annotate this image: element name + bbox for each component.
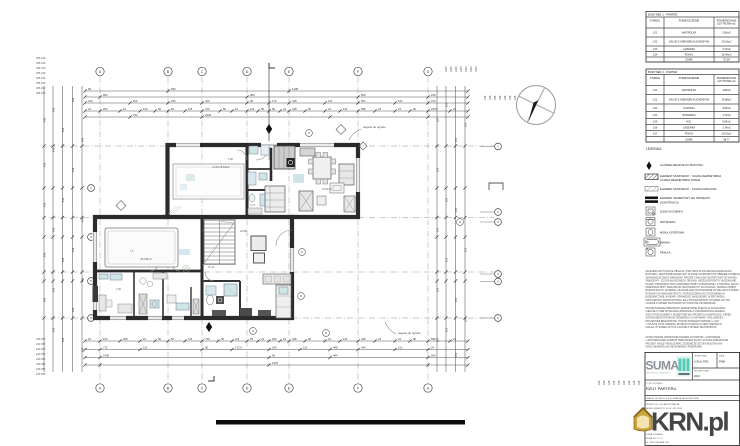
svg-text:POKOJ: POKOJ <box>685 133 694 136</box>
svg-text:5,80m2: 5,80m2 <box>722 107 731 110</box>
svg-text:PROJEKT NALEZY REALIZOWAC ZGOD: PROJEKT NALEZY REALIZOWAC ZGODNIE ZE SZT… <box>646 342 723 345</box>
svg-text:154: 154 <box>103 337 108 341</box>
svg-text:I UDOSTEPNIANIE OSOBOM TRZECIM: I UDOSTEPNIANIE OSOBOM TRZECIM BEZ ZGODY… <box>646 339 730 342</box>
svg-text:24: 24 <box>328 337 331 341</box>
svg-text:448: 448 <box>43 117 47 122</box>
svg-text:24: 24 <box>261 337 264 341</box>
svg-text:= 215,50 M N.P.M. RZEDNE I WYM: = 215,50 M N.P.M. RZEDNE I WYMIARY PODAN… <box>646 323 723 326</box>
svg-text:208: 208 <box>123 337 128 341</box>
svg-text:3,80m2: 3,80m2 <box>722 89 731 92</box>
svg-text:ELEMENT MUROWANY - SCIANA DZ: ELEMENT MUROWANY - SCIANA DZIALOWA <box>660 187 717 191</box>
svg-text:1438: 1438 <box>292 87 298 91</box>
svg-text:240: 240 <box>88 99 93 103</box>
svg-text:25,63m2: 25,63m2 <box>722 41 732 44</box>
svg-text:455 240: 455 240 <box>36 91 46 95</box>
svg-text:OPRACOWANIE CHRONIONE PRAWEM A: OPRACOWANIE CHRONIONE PRAWEM AUTORSKIM -… <box>646 336 721 339</box>
svg-text:C: C <box>201 387 204 391</box>
svg-text:112: 112 <box>250 107 255 111</box>
svg-text:1.02: 1.02 <box>653 41 658 44</box>
svg-text:25,63m2: 25,63m2 <box>322 188 332 191</box>
svg-text:455 240: 455 240 <box>36 61 46 65</box>
svg-text:730: 730 <box>205 337 210 341</box>
svg-text:BUDYNEK I JEGO ROZBUDOWA LEZY: BUDYNEK I JEGO ROZBUDOWA LEZY W PASIE OC… <box>646 273 740 276</box>
svg-text:115: 115 <box>343 107 348 111</box>
svg-text:24: 24 <box>88 337 91 341</box>
svg-text:OBOWIAZUJE ZAKAZ ZABUDOWY. PRO: OBOWIAZUJE ZAKAZ ZABUDOWY. PROJEKT ZAKLA… <box>646 276 738 279</box>
svg-text:WYKONANIEM OTWOROW SPRAWDZIC I: WYKONANIEM OTWOROW SPRAWDZIC ICH WYMIARY… <box>646 317 725 320</box>
svg-text:24,68m2: 24,68m2 <box>722 98 732 101</box>
svg-text:24: 24 <box>143 337 146 341</box>
svg-text:980: 980 <box>250 93 255 97</box>
svg-text:254: 254 <box>454 297 458 302</box>
svg-text:90: 90 <box>308 337 311 341</box>
svg-text:240 455: 240 455 <box>36 347 46 351</box>
svg-text:PRALKA: PRALKA <box>660 251 671 255</box>
svg-text:240 455: 240 455 <box>36 357 46 361</box>
svg-text:455 240: 455 240 <box>36 71 46 75</box>
svg-text:2440: 2440 <box>205 113 211 117</box>
svg-text:110: 110 <box>398 99 403 103</box>
svg-text:10,46: 10,46 <box>208 266 215 269</box>
svg-text:240 455: 240 455 <box>36 362 46 366</box>
svg-text:24: 24 <box>378 107 381 111</box>
svg-text:240: 240 <box>272 345 277 349</box>
svg-text:SYMBOL: SYMBOL <box>650 20 661 23</box>
svg-text:24: 24 <box>398 337 401 341</box>
svg-text:50: 50 <box>158 107 161 111</box>
svg-text:448: 448 <box>627 380 631 385</box>
svg-text:1.07: 1.07 <box>653 133 658 136</box>
svg-text:BUDOWLANYCH. MATERIALY BUDOWLA: BUDOWLANYCH. MATERIALY BUDOWLANE ZASTOSO… <box>646 289 740 292</box>
svg-text:448: 448 <box>612 380 616 385</box>
svg-text:1.01: 1.01 <box>653 32 658 35</box>
svg-text:25,46m2: 25,46m2 <box>722 53 732 56</box>
svg-text:ZLEW KUCHENNY: ZLEW KUCHENNY <box>660 210 684 214</box>
svg-text:1438: 1438 <box>103 353 109 357</box>
svg-text:LAZIENKA: LAZIENKA <box>683 127 695 130</box>
svg-text:ARCHITEKCI I PARTNERZY: ARCHITEKCI I PARTNERZY <box>647 372 672 375</box>
svg-text:50: 50 <box>221 337 224 341</box>
svg-text:110: 110 <box>133 99 138 103</box>
svg-text:110: 110 <box>143 345 148 349</box>
svg-text:wejscie do ogrodu: wejscie do ogrodu <box>363 125 386 129</box>
svg-text:448: 448 <box>71 247 75 252</box>
svg-text:WANNA: WANNA <box>660 241 670 245</box>
svg-text:KRN.pl: KRN.pl <box>651 407 728 437</box>
svg-text:448: 448 <box>483 95 487 100</box>
svg-text:50: 50 <box>171 337 174 341</box>
svg-text:SUMA: SUMA <box>646 359 680 373</box>
svg-text:455 240: 455 240 <box>36 76 46 80</box>
svg-text:BUDYNEK 1 - PARTER: BUDYNEK 1 - PARTER <box>648 13 677 17</box>
svg-text:3,78m2: 3,78m2 <box>722 127 731 130</box>
svg-text:3,73m2: 3,73m2 <box>722 48 731 51</box>
svg-text:CIEPLNEJ I INNE WYMAGANIA ZWIA: CIEPLNEJ I INNE WYMAGANIA ZWIAZANE Z OSZ… <box>646 310 726 313</box>
svg-text:112: 112 <box>235 337 240 341</box>
svg-text:WSZYSTKIE ELEMENTY ZELBETOWE W: WSZYSTKIE ELEMENTY ZELBETOWE WG PROJEKTU… <box>646 314 732 316</box>
svg-text:43,08m2: 43,08m2 <box>140 257 152 261</box>
svg-text:448: 448 <box>622 380 626 385</box>
svg-text:G: G <box>427 387 430 391</box>
svg-text:wejscie do ogrodu: wejscie do ogrodu <box>398 331 421 335</box>
svg-text:LEGENDA: LEGENDA <box>646 147 662 151</box>
svg-text:ZALECENIA DOTYCZACE OBSLUGI I: ZALECENIA DOTYCZACE OBSLUGI I PRZYJETE W… <box>646 270 733 273</box>
svg-text:D: D <box>246 70 249 74</box>
svg-text:772: 772 <box>103 345 108 349</box>
svg-text:172.5: 172.5 <box>235 345 242 349</box>
svg-text:254: 254 <box>454 352 458 357</box>
svg-text:448: 448 <box>361 337 366 341</box>
svg-text:POSIADAC WYMAGANE ATESTY I DOP: POSIADAC WYMAGANE ATESTY I DOPUSZCZENIA … <box>646 292 726 295</box>
svg-text:2440: 2440 <box>449 66 453 72</box>
svg-text:448: 448 <box>81 217 85 222</box>
svg-text:120: 120 <box>143 107 148 111</box>
svg-text:BUDOWNICTWIE. WYMIARY SPRAWDZI: BUDOWNICTWIE. WYMIARY SPRAWDZIC NA BUDOW… <box>646 296 726 299</box>
svg-text:254: 254 <box>445 197 449 202</box>
svg-text:MISKA USTEPOWA: MISKA USTEPOWA <box>660 231 684 235</box>
svg-text:8,09m2: 8,09m2 <box>722 121 731 124</box>
svg-text:254: 254 <box>436 227 440 232</box>
svg-text:448: 448 <box>43 252 47 257</box>
svg-text:50: 50 <box>158 337 161 341</box>
svg-text:D: D <box>246 387 249 391</box>
svg-text:RZUT PARTERU: RZUT PARTERU <box>646 386 677 391</box>
svg-text:115: 115 <box>188 107 193 111</box>
svg-text:730: 730 <box>205 107 210 111</box>
svg-text:SUMA: SUMA <box>685 138 693 141</box>
svg-text:240 455: 240 455 <box>36 372 46 376</box>
svg-text:448: 448 <box>637 380 641 385</box>
svg-text:50: 50 <box>171 107 174 111</box>
svg-text:254: 254 <box>436 337 440 342</box>
svg-text:LOKAL PRO: LOKAL PRO <box>694 360 709 364</box>
svg-text:UZYTKOWA m2: UZYTKOWA m2 <box>717 80 736 83</box>
svg-text:254: 254 <box>445 102 449 107</box>
svg-text:ELEMENT ZELBETOWY WG PROJEKTU: ELEMENT ZELBETOWY WG PROJEKTU <box>660 196 710 200</box>
svg-text:455 240: 455 240 <box>36 81 46 85</box>
svg-text:930: 930 <box>171 87 176 91</box>
svg-text:+0,00 19,69m2: +0,00 19,69m2 <box>212 165 230 169</box>
svg-text:WIATROLAP: WIATROLAP <box>682 32 697 35</box>
svg-text:24: 24 <box>123 107 126 111</box>
svg-text:448: 448 <box>493 95 497 100</box>
svg-text:WATPLIWOSCI SKONTAKTOWAC SIE Z: WATPLIWOSCI SKONTAKTOWAC SIE Z PROJEKTAN… <box>646 299 731 302</box>
svg-text:448: 448 <box>488 95 492 100</box>
svg-text:ORAZ OBOWIAZUJACYMI NORMAMI I: ORAZ OBOWIAZUJACYMI NORMAMI I PRZEPISAMI… <box>646 346 703 349</box>
svg-text:115: 115 <box>188 337 193 341</box>
svg-text:2440: 2440 <box>469 66 473 72</box>
svg-text:UWAGA: RYSUNEK CZYTAC LACZNIE: UWAGA: RYSUNEK CZYTAC LACZNIE Z OPISEM T… <box>646 326 718 329</box>
svg-text:SALON Z ANEKSEM KUCHENNYM: SALON Z ANEKSEM KUCHENNYM <box>669 98 709 101</box>
svg-text:448: 448 <box>607 380 611 385</box>
svg-text:GLOWNE WEJSCIE DO BUDYNKU: GLOWNE WEJSCIE DO BUDYNKU <box>660 163 703 167</box>
svg-text:110: 110 <box>303 345 308 349</box>
svg-text:SUMA: SUMA <box>685 59 693 62</box>
svg-text:POMIESZCZENIE: POMIESZCZENIE <box>679 77 700 80</box>
svg-text:POMIESZCZENIE: POMIESZCZENIE <box>679 20 700 23</box>
svg-text:448: 448 <box>61 337 65 342</box>
svg-text:DATA: DATA <box>719 355 725 358</box>
svg-text:252: 252 <box>272 337 277 341</box>
svg-text:C: C <box>201 70 204 74</box>
svg-text:1.03: 1.03 <box>653 48 658 51</box>
svg-text:1.04: 1.04 <box>653 53 658 56</box>
svg-text:SYMBOL: SYMBOL <box>650 77 661 80</box>
svg-text:SKALA 1:100 NR RYS. A-01 BRA: SKALA 1:100 NR RYS. A-01 BRANZA: ARCHITE… <box>646 397 699 400</box>
svg-text:98,77: 98,77 <box>723 138 730 141</box>
svg-text:348: 348 <box>292 337 297 341</box>
svg-text:1.02: 1.02 <box>653 98 658 101</box>
svg-text:448: 448 <box>52 287 56 292</box>
svg-text:PWB: PWB <box>719 360 725 364</box>
svg-text:448: 448 <box>43 162 47 167</box>
svg-text:448: 448 <box>498 95 502 100</box>
svg-text:455 240: 455 240 <box>36 86 46 90</box>
svg-text:900: 900 <box>103 93 108 97</box>
svg-text:444: 444 <box>333 353 338 357</box>
svg-text:448: 448 <box>61 257 65 262</box>
svg-text:1.06: 1.06 <box>653 127 658 130</box>
svg-text:448: 448 <box>292 99 297 103</box>
svg-text:UZYTKOWA m2: UZYTKOWA m2 <box>717 23 736 26</box>
svg-text:440: 440 <box>205 99 210 103</box>
svg-text:TYTUL RYSUNKU: TYTUL RYSUNKU <box>646 383 663 385</box>
svg-text:448: 448 <box>602 380 606 385</box>
svg-text:ZMYWARKA: ZMYWARKA <box>660 220 676 224</box>
svg-text:PROJEKTOWANE PRZEGRODY ZEWNETR: PROJEKTOWANE PRZEGRODY ZEWNETRZNE SPELNI… <box>646 307 726 310</box>
svg-text:SCIANA WEWNETRZNA NOSNA: SCIANA WEWNETRZNA NOSNA <box>660 178 701 182</box>
svg-text:448: 448 <box>43 297 47 302</box>
svg-text:110: 110 <box>328 99 333 103</box>
svg-text:254: 254 <box>436 287 440 292</box>
svg-text:SUMA SP. Z O.O.: SUMA SP. Z O.O. <box>646 437 664 440</box>
svg-text:1.03: 1.03 <box>653 107 658 110</box>
svg-text:254: 254 <box>454 137 458 142</box>
svg-text:90: 90 <box>413 337 416 341</box>
svg-text:24: 24 <box>283 107 286 111</box>
svg-text:POKOJ: POKOJ <box>685 53 694 56</box>
svg-text:2378: 2378 <box>272 361 278 365</box>
svg-text:OPRACOWAL: OPRACOWAL <box>694 355 708 358</box>
svg-text:90: 90 <box>250 99 253 103</box>
svg-text:444: 444 <box>361 345 366 349</box>
svg-text:55: 55 <box>250 337 253 341</box>
svg-text:240 455: 240 455 <box>36 367 46 371</box>
svg-text:254: 254 <box>464 317 468 322</box>
svg-text:448: 448 <box>632 380 636 385</box>
svg-text:24: 24 <box>398 107 401 111</box>
svg-text:448: 448 <box>43 202 47 207</box>
svg-text:598: 598 <box>431 337 436 341</box>
svg-text:1.04: 1.04 <box>653 114 658 117</box>
svg-text:2440: 2440 <box>454 66 458 72</box>
svg-text:230: 230 <box>431 93 436 97</box>
svg-text:154: 154 <box>133 113 138 117</box>
svg-text:LAZIENKA: LAZIENKA <box>683 48 695 51</box>
svg-text:24: 24 <box>88 107 91 111</box>
svg-text:KUCHNIA: KUCHNIA <box>683 107 695 110</box>
svg-text:3,73: 3,73 <box>250 204 255 207</box>
svg-text:455 240: 455 240 <box>36 56 46 60</box>
svg-text:24: 24 <box>431 345 434 349</box>
svg-text:UL. BUDOWLANA 10/2: UL. BUDOWLANA 10/2 <box>646 441 670 444</box>
svg-text:KONSTRUKCJI: KONSTRUKCJI <box>660 201 679 205</box>
svg-text:PRZEPISOW BHP I WARUNKOW TECHN: PRZEPISOW BHP I WARUNKOW TECHNICZNYCH WY… <box>646 286 738 289</box>
svg-text:24: 24 <box>235 107 238 111</box>
svg-text:ZABUDOWY - ZGODA WLASCIWEGO OR: ZABUDOWY - ZGODA WLASCIWEGO ORGANU. WSZE… <box>646 280 737 283</box>
svg-text:2021: 2021 <box>694 374 700 378</box>
svg-text:2440: 2440 <box>464 66 468 72</box>
svg-text:BUDYNEK 2 - PARTER: BUDYNEK 2 - PARTER <box>648 70 677 74</box>
svg-text:254: 254 <box>464 122 468 127</box>
svg-text:SALON Z ANEKSEM KUCHENNYM: SALON Z ANEKSEM KUCHENNYM <box>669 41 709 44</box>
svg-text:172: 172 <box>272 99 277 103</box>
svg-text:24,68: 24,68 <box>240 229 247 233</box>
svg-text:254: 254 <box>445 257 449 262</box>
svg-text:24: 24 <box>328 107 331 111</box>
svg-text:G: G <box>427 70 430 74</box>
svg-text:1.01: 1.01 <box>653 89 658 92</box>
svg-text:1.05: 1.05 <box>653 121 658 124</box>
svg-text:HOL: HOL <box>686 121 692 124</box>
svg-text:2440: 2440 <box>474 66 478 72</box>
svg-text:24: 24 <box>453 107 456 111</box>
svg-text:254: 254 <box>445 327 449 332</box>
svg-text:2440: 2440 <box>444 66 448 72</box>
svg-text:254: 254 <box>454 207 458 212</box>
svg-text:5,80: 5,80 <box>228 158 233 161</box>
svg-text:90: 90 <box>272 353 275 357</box>
svg-text:448: 448 <box>513 95 517 100</box>
svg-text:448: 448 <box>71 167 75 172</box>
svg-text:254: 254 <box>103 107 108 111</box>
svg-text:PROJEKTAMI BRANZOWYMI. POZIOM: PROJEKTAMI BRANZOWYMI. POZIOM POSADZKI P… <box>646 320 720 323</box>
svg-text:240 455: 240 455 <box>36 337 46 341</box>
svg-text:448: 448 <box>71 307 75 312</box>
svg-text:50: 50 <box>223 107 226 111</box>
svg-text:554: 554 <box>431 353 436 357</box>
svg-text:240 455: 240 455 <box>36 342 46 346</box>
svg-text:24: 24 <box>378 337 381 341</box>
svg-text:NALEZY PROWADZIC POD NADZOREM: NALEZY PROWADZIC POD NADZOREM OSOBY UPRA… <box>646 283 740 286</box>
svg-text:448: 448 <box>503 95 507 100</box>
svg-text:448: 448 <box>292 107 297 111</box>
svg-text:90: 90 <box>413 107 416 111</box>
svg-text:2378: 2378 <box>431 107 437 111</box>
svg-text:214: 214 <box>431 99 436 103</box>
svg-text:448: 448 <box>597 380 601 385</box>
svg-text:448: 448 <box>81 277 85 282</box>
svg-text:20,53m2: 20,53m2 <box>722 133 732 136</box>
svg-text:448: 448 <box>508 95 512 100</box>
svg-text:448: 448 <box>81 137 85 142</box>
svg-text:240 455: 240 455 <box>36 352 46 356</box>
svg-text:110: 110 <box>398 345 403 349</box>
svg-text:560: 560 <box>361 93 366 97</box>
svg-text:90: 90 <box>272 107 275 111</box>
svg-text:448: 448 <box>52 327 56 332</box>
svg-text:448: 448 <box>61 127 65 132</box>
svg-text:254: 254 <box>464 247 468 252</box>
svg-text:254: 254 <box>436 117 440 122</box>
svg-text:448: 448 <box>52 147 56 152</box>
svg-text:SPIZARNIA: SPIZARNIA <box>682 114 696 117</box>
svg-text:115: 115 <box>343 337 348 341</box>
svg-text:448: 448 <box>333 345 338 349</box>
svg-text:254: 254 <box>436 167 440 172</box>
svg-text:455 240: 455 240 <box>36 66 46 70</box>
svg-text:340: 340 <box>171 99 176 103</box>
svg-text:448: 448 <box>617 380 621 385</box>
svg-text:2,96: 2,96 <box>116 288 121 291</box>
svg-text:LACZNIE Z OPISEM TECHNICZNYM I: LACZNIE Z OPISEM TECHNICZNYM I POZOSTALY… <box>646 302 717 305</box>
svg-text:24: 24 <box>453 337 456 341</box>
svg-text:594: 594 <box>361 99 366 103</box>
svg-text:448: 448 <box>61 197 65 202</box>
svg-text:1,73m2: 1,73m2 <box>722 114 731 117</box>
svg-text:2440: 2440 <box>459 66 463 72</box>
svg-text:PROJEKTOWAL: PROJEKTOWAL <box>694 370 710 373</box>
svg-text:WIATROLAP: WIATROLAP <box>682 89 697 92</box>
svg-text:598: 598 <box>361 107 366 111</box>
svg-text:57,38: 57,38 <box>723 59 730 62</box>
svg-text:448: 448 <box>81 347 85 352</box>
svg-text:ELEMENT MUROWANY - SCIANA ZE: ELEMENT MUROWANY - SCIANA ZEWNETRZNA <box>660 174 721 178</box>
svg-text:2,96m2: 2,96m2 <box>722 32 731 35</box>
svg-text:55: 55 <box>261 107 264 111</box>
svg-text:448: 448 <box>52 107 56 112</box>
svg-text:90: 90 <box>205 345 208 349</box>
svg-text:24: 24 <box>283 337 286 341</box>
svg-text:448: 448 <box>52 227 56 232</box>
svg-text:90: 90 <box>88 87 91 91</box>
svg-text:448: 448 <box>71 97 75 102</box>
svg-text:90: 90 <box>308 107 311 111</box>
